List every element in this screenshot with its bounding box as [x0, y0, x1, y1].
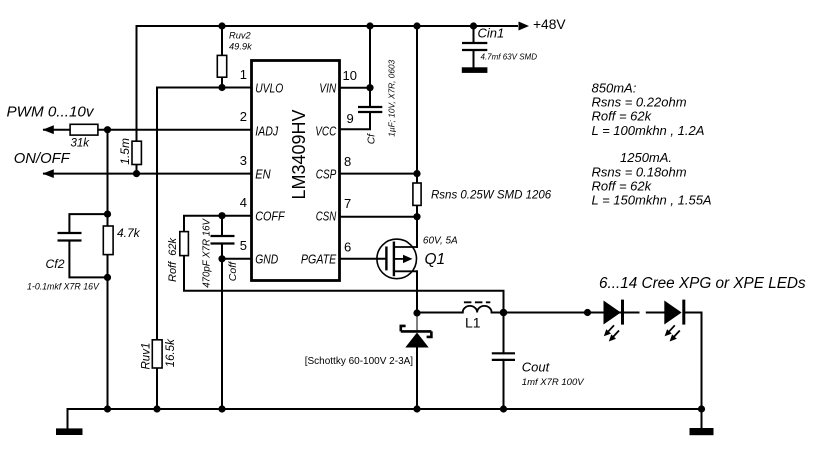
capacitor Cin1 [462, 43, 487, 50]
svg-text:L = 100mkhn , 1.2A: L = 100mkhn , 1.2A [592, 123, 705, 138]
arrow PWM input [43, 125, 54, 134]
svg-text:VCC: VCC [315, 123, 336, 138]
svg-text:Coff: Coff [227, 261, 239, 281]
svg-text:Roff 62k: Roff 62k [167, 237, 179, 282]
svg-text:60V, 5A: 60V, 5A [423, 236, 458, 247]
ground left [56, 428, 83, 435]
svg-text:ON/OFF: ON/OFF [14, 151, 71, 167]
node switch / diode [413, 309, 420, 316]
svg-text:VIN: VIN [319, 80, 336, 95]
node bus / diode [413, 405, 420, 412]
wire Ruv2 branch [221, 26, 223, 88]
node top rail / Ruv2 [218, 22, 225, 29]
node LED string start [584, 309, 591, 316]
wire IADJ pin2 row [44, 129, 251, 131]
diode D1 Schottky [401, 313, 432, 348]
node IADJ filter top [104, 211, 111, 218]
node COFF / Coff [218, 212, 225, 219]
wire LED return [685, 313, 701, 429]
svg-text:4.7k: 4.7k [117, 226, 141, 240]
svg-text:Cf: Cf [367, 133, 378, 144]
wire Cout branch [503, 313, 505, 410]
node inductor out [500, 309, 508, 317]
svg-text:7: 7 [344, 196, 351, 211]
wire CSP pin8 row [340, 173, 417, 175]
resistor 1.5m [132, 141, 141, 164]
svg-text:10: 10 [343, 68, 357, 83]
wire Cf2 loop [69, 214, 107, 277]
transistor Q1 P-MOSFET [377, 239, 417, 279]
wire EN pin3 row [44, 173, 251, 175]
wire Q1 drain to switch node [416, 271, 418, 313]
LED D2 [604, 301, 621, 325]
node bus / LED return [698, 405, 705, 412]
node bus / Cout [500, 405, 507, 412]
wire +48V top rail [137, 25, 518, 27]
svg-text:LM3409HV: LM3409HV [289, 109, 309, 199]
wire Rsns vertical [416, 26, 418, 247]
svg-text:1.5m: 1.5m [118, 138, 132, 165]
node bus / Cf2 [104, 405, 111, 412]
wire COFF pin4 to Roff [184, 216, 504, 313]
svg-text:49.9k: 49.9k [229, 42, 253, 52]
node GND pin / Coff [218, 255, 225, 262]
svg-text:4: 4 [240, 195, 247, 210]
wire ground bus [68, 409, 702, 428]
resistor Ruv2 [217, 55, 226, 77]
svg-text:CSP: CSP [316, 167, 337, 182]
svg-text:3: 3 [240, 153, 247, 168]
node bus / Ruv1 [153, 405, 160, 412]
wire diode to ground bus [416, 348, 418, 410]
svg-text:Rsns = 0.22ohm: Rsns = 0.22ohm [592, 95, 687, 110]
svg-text:PWM 0...10v: PWM 0...10v [7, 103, 95, 120]
wire 4.7k branch [107, 214, 109, 409]
svg-text:Ruv2: Ruv2 [229, 30, 252, 40]
wire 1.5m pull-up branch [136, 26, 138, 174]
svg-text:+48V: +48V [533, 17, 566, 32]
ground Cin1 [462, 67, 488, 73]
svg-text:Roff = 62k: Roff = 62k [592, 179, 653, 194]
wire PGATE pin6 [340, 258, 386, 260]
LED D2 light arrows [604, 325, 619, 341]
svg-text:GND: GND [255, 252, 278, 267]
svg-text:2: 2 [240, 109, 247, 124]
svg-text:1250mA.: 1250mA. [620, 150, 672, 165]
resistor R 31k [70, 124, 98, 135]
inductor L1 [463, 306, 492, 313]
wire Cin1 branch [473, 26, 475, 67]
resistor Ruv1 [152, 340, 162, 368]
LED D3 light arrows [665, 325, 680, 341]
wire VIN pin10 and Cf branch [340, 26, 370, 129]
svg-text:1mf X7R 100V: 1mf X7R 100V [522, 377, 585, 388]
node UVLO / Ruv2 [218, 84, 225, 91]
svg-text:EN: EN [255, 167, 271, 182]
svg-text:Rsns 0.25W SMD 1206: Rsns 0.25W SMD 1206 [431, 189, 552, 201]
svg-text:L1: L1 [465, 314, 481, 330]
svg-text:Rsns = 0.18ohm: Rsns = 0.18ohm [592, 164, 687, 179]
svg-text:1: 1 [240, 67, 247, 82]
node CSN / Rsns [413, 213, 420, 220]
svg-text:850mA:: 850mA: [592, 81, 637, 96]
svg-text:Cf2: Cf2 [46, 257, 65, 271]
svg-text:6: 6 [344, 239, 351, 254]
arrow +48V [519, 22, 530, 31]
capacitor Cf2 [58, 233, 82, 241]
node IADJ / 31k [104, 126, 111, 133]
wire UVLO pin1 to Ruv1 [157, 88, 251, 410]
svg-text:L = 150mkhn , 1.55A: L = 150mkhn , 1.55A [592, 193, 712, 208]
svg-text:8: 8 [344, 154, 351, 169]
node IADJ filter bottom [104, 274, 111, 281]
svg-text:6...14 Cree XPG or XPE LEDs: 6...14 Cree XPG or XPE LEDs [599, 275, 806, 292]
ground right [690, 428, 714, 435]
resistor Rsns [413, 183, 421, 205]
svg-text:5: 5 [240, 238, 247, 253]
wire Coff cap branch [221, 216, 223, 409]
IC U1 LM3409HV body [252, 61, 340, 281]
node EN / 1.5m [133, 170, 140, 177]
svg-text:Cin1: Cin1 [478, 26, 505, 41]
svg-text:4.7mf 63V SMD: 4.7mf 63V SMD [481, 53, 538, 62]
wire CSN pin7 row [340, 216, 417, 218]
resistor Roff [180, 232, 189, 256]
node VIN / Cf [366, 84, 373, 91]
wire IADJ filter vertical [107, 130, 109, 214]
svg-text:IADJ: IADJ [255, 123, 278, 138]
wire GND pin5 [222, 258, 251, 260]
svg-text:PGATE: PGATE [301, 252, 337, 267]
arrow ON/OFF input [43, 169, 54, 178]
node top rail / Cin1 [470, 22, 477, 29]
svg-text:[Schottky 60-100V 2-3A]: [Schottky 60-100V 2-3A] [305, 356, 414, 367]
svg-text:470pF X7R 16V: 470pF X7R 16V [202, 218, 213, 288]
node CSP / Rsns [413, 170, 420, 177]
node top rail / VIN [366, 22, 373, 29]
svg-text:16.5k: 16.5k [165, 338, 177, 367]
svg-text:Roff = 62k: Roff = 62k [592, 109, 653, 124]
node bus / Coff [218, 405, 225, 412]
node top rail / Rsns [413, 22, 420, 29]
LED D3 [664, 301, 681, 325]
inductor L1 core dashes [464, 301, 490, 303]
capacitor Cout [492, 353, 515, 360]
svg-text:CSN: CSN [316, 209, 337, 224]
capacitor Cf [358, 107, 382, 112]
capacitor Coff 470pF [211, 236, 235, 244]
svg-text:9: 9 [347, 111, 354, 126]
svg-text:UVLO: UVLO [255, 80, 283, 95]
svg-text:1µF; 10V, X7R, 0603: 1µF; 10V, X7R, 0603 [386, 59, 396, 136]
svg-text:Cout: Cout [522, 359, 551, 374]
svg-text:31k: 31k [71, 137, 91, 149]
svg-text:Ruv1: Ruv1 [141, 343, 153, 370]
svg-text:COFF: COFF [255, 209, 285, 224]
svg-text:1-0.1mkf X7R 16V: 1-0.1mkf X7R 16V [27, 281, 100, 291]
wire switch node to inductor [417, 312, 463, 314]
svg-text:Q1: Q1 [425, 251, 446, 268]
resistor 4.7k [103, 226, 113, 255]
wire inductor out / LED row [492, 312, 665, 314]
